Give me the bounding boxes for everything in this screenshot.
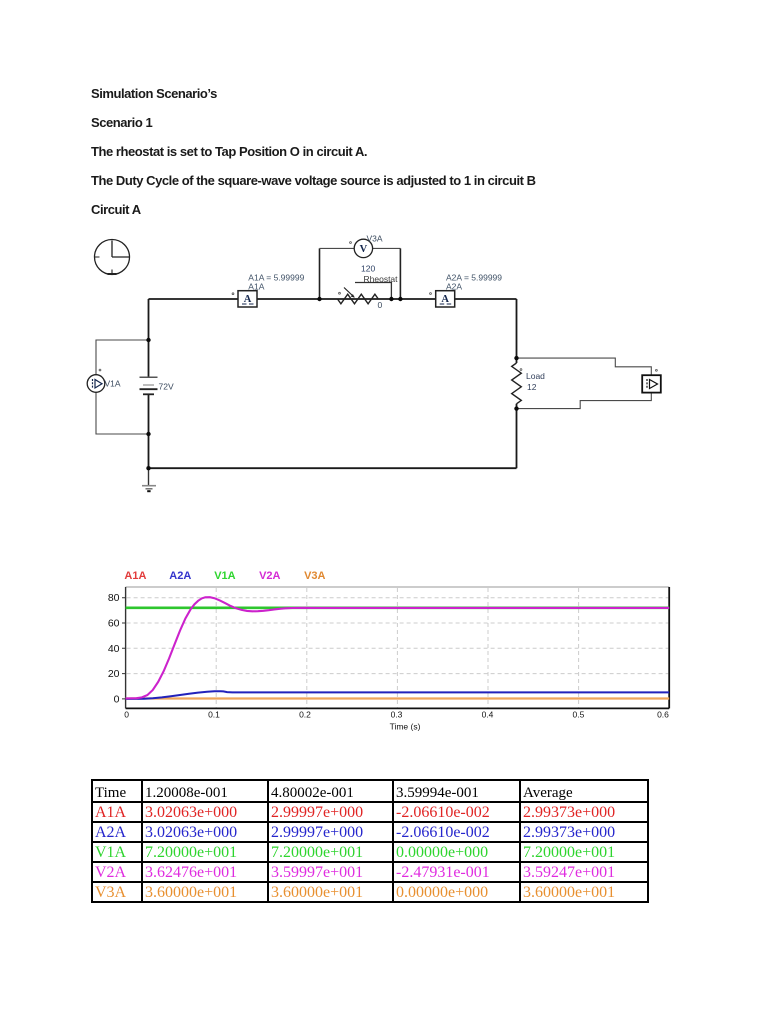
svg-text:120: 120 bbox=[361, 264, 375, 274]
svg-text:40: 40 bbox=[108, 643, 120, 655]
svg-text:0: 0 bbox=[114, 693, 120, 705]
svg-text:0.2: 0.2 bbox=[299, 710, 311, 720]
svg-text:0.5: 0.5 bbox=[572, 710, 584, 720]
svg-text:V2A: V2A bbox=[259, 570, 280, 582]
svg-text:V: V bbox=[360, 244, 368, 255]
svg-text:60: 60 bbox=[108, 618, 120, 630]
svg-text:0.3: 0.3 bbox=[391, 710, 403, 720]
svg-text:Load: Load bbox=[526, 371, 545, 381]
svg-text:80: 80 bbox=[108, 592, 120, 604]
svg-text:20: 20 bbox=[108, 668, 120, 680]
svg-text:0.1: 0.1 bbox=[208, 710, 220, 720]
svg-text:V1A: V1A bbox=[214, 570, 235, 582]
svg-text:V3A: V3A bbox=[304, 570, 325, 582]
svg-text:A: A bbox=[244, 294, 252, 305]
svg-text:V3A: V3A bbox=[367, 234, 383, 244]
svg-text:A2A: A2A bbox=[446, 282, 462, 292]
svg-text:A: A bbox=[441, 294, 449, 305]
svg-text:12: 12 bbox=[527, 382, 537, 392]
svg-text:0: 0 bbox=[378, 300, 383, 310]
svg-text:A2A: A2A bbox=[169, 570, 191, 582]
svg-text:V1A: V1A bbox=[105, 379, 121, 389]
svg-text:72V: 72V bbox=[159, 382, 174, 392]
svg-text:0: 0 bbox=[124, 710, 129, 720]
svg-text:0.6: 0.6 bbox=[657, 710, 669, 720]
svg-text:A1A: A1A bbox=[248, 282, 264, 292]
svg-text:A1A: A1A bbox=[124, 570, 146, 582]
svg-text:Rheostat: Rheostat bbox=[364, 274, 399, 284]
svg-text:0.4: 0.4 bbox=[482, 710, 494, 720]
svg-text:Time (s): Time (s) bbox=[390, 722, 421, 732]
